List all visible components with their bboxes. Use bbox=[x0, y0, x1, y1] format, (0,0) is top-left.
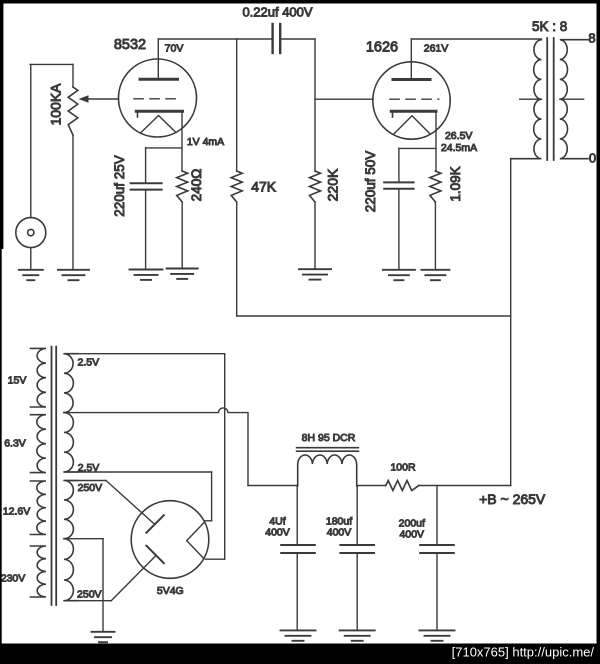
wire 47K top bbox=[236, 39, 238, 171]
ground 220K bbox=[299, 269, 331, 279]
svg-text:400V: 400V bbox=[327, 527, 352, 539]
svg-text:1626: 1626 bbox=[366, 40, 398, 56]
svg-text:220K: 220K bbox=[325, 168, 341, 201]
resistor 1.09K bbox=[430, 171, 441, 202]
PT primary 12.6V winding bbox=[31, 481, 47, 535]
pot wiper arrow bbox=[79, 95, 119, 103]
svg-text:220uf 25V: 220uf 25V bbox=[112, 155, 127, 217]
wire 250V CT to ground bbox=[64, 539, 103, 632]
wire 240 to ground bbox=[181, 202, 183, 268]
svg-text:0: 0 bbox=[589, 151, 596, 166]
1626 grid (dashed) bbox=[390, 98, 439, 100]
wire 1626 grid bbox=[315, 98, 373, 100]
wire B+ to 47K bottom bbox=[237, 315, 511, 317]
PT primary 6.3V winding bbox=[31, 415, 47, 473]
border right bbox=[597, 0, 600, 664]
capacitor C4 4Uf 400V bbox=[281, 486, 315, 631]
5V4G filament bbox=[187, 523, 204, 559]
ground C5 bbox=[340, 630, 375, 640]
ground 240 bbox=[167, 269, 198, 279]
5V4G diode 1 plate bbox=[146, 515, 163, 532]
resistor 47K bbox=[231, 171, 242, 202]
svg-text:12.6V: 12.6V bbox=[3, 506, 30, 518]
svg-text:5V4G: 5V4G bbox=[157, 585, 184, 597]
input jack J1 bbox=[16, 218, 46, 248]
svg-text:1.09K: 1.09K bbox=[448, 166, 463, 201]
svg-text:15V: 15V bbox=[8, 375, 27, 387]
PT secondary 250V upper bbox=[64, 481, 78, 539]
wire 220K bottom to ground bbox=[314, 202, 316, 269]
svg-text:100KA: 100KA bbox=[48, 83, 64, 126]
ground 1.09K bbox=[421, 270, 449, 280]
wire 5V CT to B+ (with hop) bbox=[64, 408, 248, 486]
svg-text:47K: 47K bbox=[251, 179, 277, 195]
ground C6 bbox=[420, 630, 455, 640]
wire pot bottom to ground bbox=[72, 135, 74, 269]
OPT T2 secondary bbox=[560, 40, 588, 159]
svg-text:[710x765] http://upic.me/: [710x765] http://upic.me/ bbox=[452, 645, 595, 660]
border top bbox=[0, 0, 600, 4]
1626 plate bbox=[393, 39, 430, 80]
8532 grid (dashed) bbox=[134, 98, 182, 100]
svg-text:8H 95 DCR: 8H 95 DCR bbox=[302, 432, 356, 444]
wire 2.5V lower to filament top bbox=[64, 472, 212, 521]
wire 5V top to rectifier filament bbox=[64, 354, 225, 560]
ground PT CT bbox=[92, 632, 115, 642]
1626 cathode bbox=[391, 111, 436, 117]
svg-text:250V: 250V bbox=[77, 589, 102, 601]
svg-text:2.5V: 2.5V bbox=[77, 357, 99, 369]
PT T1 core bbox=[52, 347, 57, 605]
ground pot bbox=[58, 270, 89, 280]
svg-text:5K : 8: 5K : 8 bbox=[532, 19, 567, 34]
resistor 220K bbox=[310, 171, 321, 202]
5V4G diode 2 plate bbox=[146, 546, 163, 563]
PT secondary 250V lower bbox=[64, 539, 78, 601]
wire OPT bottom to B+ node bbox=[510, 159, 512, 486]
8532 cathode wire bbox=[146, 111, 182, 183]
wire 8532 plate rail to cap bbox=[158, 38, 271, 40]
rectifier 5V4G envelope bbox=[131, 501, 209, 579]
svg-text:220uf 50V: 220uf 50V bbox=[363, 151, 378, 213]
choke core bbox=[297, 448, 359, 452]
svg-text:8: 8 bbox=[588, 31, 595, 46]
PT primary 230V winding bbox=[31, 546, 47, 597]
wire choke right to 100R bbox=[357, 485, 386, 487]
svg-text:70V: 70V bbox=[165, 43, 184, 55]
choke L1 8H bbox=[298, 455, 357, 486]
wire B+ rail left bbox=[248, 485, 298, 487]
potentiometer 100KA bbox=[68, 87, 78, 135]
8532 cathode bbox=[136, 111, 182, 117]
svg-text:400V: 400V bbox=[400, 529, 425, 541]
resistor 240ohm bbox=[177, 171, 188, 202]
svg-text:+B ~ 265V: +B ~ 265V bbox=[479, 491, 546, 507]
ground jack bbox=[19, 270, 43, 280]
border left bbox=[0, 0, 3, 249]
capacitor C2 220uf 25V bbox=[131, 183, 162, 189]
wire C2 to ground bbox=[145, 190, 147, 269]
svg-text:26.5V: 26.5V bbox=[445, 130, 472, 142]
PT primary 15V winding bbox=[31, 348, 47, 407]
capacitor C6 200uf 400V bbox=[420, 486, 454, 631]
1626 filament bbox=[394, 116, 430, 134]
tube 8532 envelope bbox=[119, 59, 197, 137]
OPT primary UL stub bbox=[520, 98, 542, 100]
1626 cathode wire bbox=[399, 111, 436, 182]
OPT core bbox=[547, 38, 554, 160]
bottom watermark bar bbox=[0, 644, 600, 664]
svg-text:230V: 230V bbox=[1, 573, 26, 585]
svg-text:400V: 400V bbox=[265, 527, 290, 539]
8532 plate bbox=[140, 39, 178, 79]
ground C3 bbox=[383, 270, 415, 280]
capacitor C1 0.22uf 400V bbox=[273, 24, 281, 53]
ground C2 bbox=[130, 270, 163, 280]
ground C4 bbox=[281, 630, 316, 640]
wire 250V top to diode 1 bbox=[64, 481, 154, 525]
svg-text:240Ω: 240Ω bbox=[189, 169, 204, 202]
svg-text:261V: 261V bbox=[424, 42, 449, 54]
PT secondary 2.5V upper bbox=[64, 354, 78, 413]
wire jack to ground bbox=[30, 248, 32, 269]
tube 1626 envelope bbox=[373, 62, 450, 139]
wire cap to 220K node bbox=[280, 38, 315, 40]
wire 1626 plate to OPT bbox=[411, 38, 541, 40]
svg-text:24.5mA: 24.5mA bbox=[441, 142, 477, 154]
wire jack top to pot top bbox=[30, 64, 73, 217]
svg-text:250V: 250V bbox=[78, 482, 103, 494]
wire 100R to B+ corner bbox=[419, 485, 511, 487]
svg-text:8532: 8532 bbox=[114, 37, 146, 53]
svg-text:1V 4mA: 1V 4mA bbox=[187, 136, 224, 148]
OPT secondary 4ohm tap bbox=[560, 98, 584, 100]
PT secondary 2.5V lower bbox=[64, 413, 78, 472]
svg-text:100R: 100R bbox=[390, 461, 416, 473]
svg-text:0.22uf 400V: 0.22uf 400V bbox=[242, 5, 312, 20]
OPT T2 primary bbox=[511, 40, 542, 159]
svg-text:6.3V: 6.3V bbox=[4, 438, 26, 450]
wire 250V bottom to diode 2 bbox=[64, 557, 155, 601]
wire 47K bottom bbox=[236, 202, 238, 316]
capacitor C3 220uf 50V bbox=[384, 182, 413, 188]
wire 1.09K to ground bbox=[434, 202, 436, 269]
wire C3 to ground bbox=[398, 189, 400, 269]
wire 220K top bbox=[314, 39, 316, 171]
resistor 100R bbox=[386, 481, 419, 491]
8532 filament bbox=[141, 116, 176, 133]
capacitor C5 180uf 400V bbox=[340, 486, 374, 631]
